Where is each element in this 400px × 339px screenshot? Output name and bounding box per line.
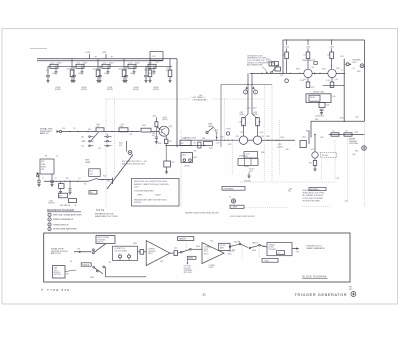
svg-text:LOWER: LOWER [209,265,216,267]
svg-text:C66: C66 [352,154,355,156]
svg-text:2: 2 [245,92,246,94]
source wire down-right [105,267,107,277]
dashed enclosure bottom edge segment 2 [302,205,330,207]
svg-text:4.7k: 4.7k [149,63,152,65]
cap and ground left of Q24 [155,127,157,137]
dashed line mid bottom [240,181,336,183]
pot wiper [89,178,98,181]
svg-text:S10: S10 [88,129,91,131]
svg-text:C30: C30 [220,137,223,139]
svg-text:SEL: SEL [245,156,248,158]
lower link wire [323,85,345,87]
svg-text:R24: R24 [90,171,93,173]
svg-text:C32: C32 [98,70,101,72]
svg-text:C33: C33 [240,132,243,134]
output wire with arrow [292,248,297,250]
svg-text:2.2k: 2.2k [282,54,285,56]
svg-text:TP2: TP2 [296,252,299,254]
svg-text:HORIZONTAL AMPLIFIER: HORIZONTAL AMPLIFIER [53,228,77,231]
comparator triangle [202,243,224,264]
svg-text:10k: 10k [266,61,269,63]
svg-text:LINE: LINE [54,268,57,270]
svg-text:TUNNEL: TUNNEL [269,244,275,246]
wire Q24 emitter to trig level rotary [166,144,206,146]
board contacts B B [119,255,122,258]
svg-text:R5: R5 [84,184,86,186]
transistor Q33 circle [239,136,247,144]
line trig box [53,266,66,278]
ground under source block [248,173,250,176]
svg-text:51: 51 [341,70,343,72]
svg-text:C12: C12 [121,124,124,126]
svg-text:R31: R31 [228,144,231,146]
svg-text:ALL WAFERS SHOWN IN: ALL WAFERS SHOWN IN [303,194,324,197]
trigger out connector [346,63,349,66]
svg-text:C65: C65 [320,137,323,139]
connector arrow into box [37,172,40,174]
svg-text:C1: C1 [56,155,58,157]
svg-text:SEL: SEL [59,195,62,197]
svg-text:R55: R55 [336,68,339,70]
dashed wafer line right of note box [180,130,182,207]
lower wire run [44,180,89,182]
svg-text:R36: R36 [261,152,264,154]
svg-text:C63: C63 [355,117,358,119]
wire schmitt out [170,252,174,254]
feed resistor box 1 [285,52,289,59]
svg-text:SWEEP GENERATOR: SWEEP GENERATOR [306,247,325,250]
resistor boxes left of Q53 [269,62,275,66]
svg-text:.001: .001 [148,73,152,75]
pulse generator enclosure left edge [282,40,284,73]
tall vertical pair to upper section [247,73,249,114]
int trig box [180,140,191,145]
svg-text:3: 3 [255,92,256,94]
svg-text:LEVEL: LEVEL [208,126,214,128]
boxed label TRIGGER right [309,187,326,190]
emitter junction node [165,145,167,147]
svg-text:422 ONLY: 422 ONLY [322,155,329,157]
svg-text:(DCPL): (DCPL) [245,181,251,183]
test point circle below blade [285,79,289,83]
svg-text:TIMING SWITCH: TIMING SWITCH [53,224,69,226]
svg-text:GND: GND [82,141,87,143]
svg-text:BLOCK DIAGRAM: BLOCK DIAGRAM [302,276,326,279]
left small box near Q64 [300,141,306,148]
resistor R342 box [169,66,171,70]
svg-text:(TRIGGER): (TRIGGER) [97,239,106,241]
ext trig level box with pot dots [181,153,193,163]
vertical to trigger out [343,59,345,122]
svg-text:R29: R29 [209,148,212,150]
decoupling stage 4 (R/C filter) [126,65,152,67]
svg-text:+100V: +100V [92,69,98,71]
svg-text:OHMS: OHMS [137,194,143,196]
svg-text:R331: R331 [135,62,140,64]
reference item 2 [48,218,51,221]
capacitor C321 [99,66,101,75]
svg-text:®: ® [41,288,43,292]
decoupling stage 2 (R/C filter) [74,65,100,67]
svg-text:(DCPL): (DCPL) [49,203,55,205]
svg-text:INT: INT [181,143,184,145]
capacitor C341 [145,66,147,75]
svg-text:L34: L34 [156,62,159,64]
svg-text:DELAY LINE: DELAY LINE [313,91,324,94]
svg-text:(DCPL): (DCPL) [278,146,284,148]
svg-text:+175: +175 [336,178,340,180]
svg-text:1M: 1M [152,135,155,137]
pencil smudge top-left [30,48,47,50]
svg-text:PULSE: PULSE [220,245,225,247]
svg-text:N O T E: N O T E [96,210,105,212]
source switch contacts [93,266,95,268]
svg-text:LEVEL: LEVEL [184,166,190,168]
capacitor C331 [125,66,127,75]
collector load resistor above Q24 [155,117,157,122]
transistor Q24 circle [159,126,169,136]
ground network column [165,171,168,173]
svg-text:C2: C2 [55,178,57,180]
resistor R321 box [102,64,110,68]
ground stage 4 right [148,79,151,81]
svg-text:SEE PARTS LIST FOR: SEE PARTS LIST FOR [303,189,322,192]
svg-text:R321: R321 [109,62,114,64]
TD inner box [277,251,285,255]
svg-text:R10: R10 [97,124,100,126]
svg-text:4.7k: 4.7k [51,63,54,65]
resistor 499k box [141,128,151,132]
resistor R331 box [128,64,136,68]
time/div boxed label [178,237,194,241]
reference item 1 [48,213,51,216]
swoopy arrow [262,67,267,73]
resistor R311 box [76,64,84,68]
feed wire stage 5 [169,59,171,67]
overlap box at comparator [219,243,230,250]
svg-text:SCHMITT: SCHMITT [148,248,155,250]
switch contact pair [92,249,94,251]
small cap C342 [153,71,156,73]
svg-text:31: 31 [203,293,207,297]
power bus -12V line [37,60,163,62]
boxed label TRIGGER left [222,186,245,190]
ground stage 5 left [144,79,147,81]
svg-text:R28: R28 [202,138,205,140]
svg-text:4: 4 [49,229,50,231]
resistor 100k box [119,128,128,132]
resistor box 2 [69,199,77,203]
ground stage 4 left [124,79,127,81]
ground under resistor [59,190,62,192]
svg-text:FROM LV: FROM LV [54,272,62,274]
svg-text:SW40: SW40 [244,166,249,168]
svg-text:B1: B1 [109,262,111,264]
svg-text:Q24: Q24 [169,126,173,128]
switch blade 1 [91,132,99,140]
svg-text:2: 2 [49,219,50,221]
svg-text:876: 876 [349,289,352,291]
svg-text:R12: R12 [130,134,133,136]
svg-text:R53: R53 [296,69,299,71]
svg-text:C24: C24 [107,181,110,183]
mode switch contacts [180,251,182,253]
svg-text:R62: R62 [315,119,318,121]
signal input wire [62,131,96,133]
crossing wire y84.5 [221,84,272,86]
svg-text:MULTI: MULTI [148,253,153,255]
circled ref 2 on vertical [244,90,248,94]
svg-text:(DCPL): (DCPL) [162,119,168,121]
svg-text:(422 ONLY): (422 ONLY) [184,272,193,274]
wire after coupling switch [104,131,140,133]
svg-text:R1: R1 [45,155,47,157]
svg-text:C6: C6 [74,205,76,207]
svg-text:(DCPL): (DCPL) [133,89,139,91]
block diagram border box [44,233,350,282]
minus trig boxed label [262,258,278,262]
transistor Q54 circle [328,69,336,77]
input caps and grounds [38,174,40,180]
svg-text:B: B [128,254,129,256]
wire contact box to schmitt [138,251,141,253]
svg-text:.001: .001 [130,73,134,75]
svg-text:TRIGGER: TRIGGER [269,249,277,251]
svg-text:.001: .001 [104,73,108,75]
svg-text:R26: R26 [158,143,161,145]
svg-text:IN FROM: IN FROM [184,268,191,270]
svg-text:RESISTORS ±5% COMPOSITION O: RESISTORS ±5% COMPOSITION OR AS [134,180,168,183]
svg-text:250k: 250k [90,174,94,176]
svg-text:SHOWN: SHOWN [134,202,141,204]
pulse generator enclosure top edge [283,39,365,41]
decoupling stage 1 (R/C filter) [48,65,74,67]
small box under network [319,103,325,108]
svg-text:1.5k: 1.5k [300,80,304,82]
svg-text:V52: V52 [210,241,213,243]
svg-text:499k: 499k [142,125,146,127]
svg-text:TRIGGER: TRIGGER [148,251,156,253]
Q33 emitter drop [243,143,245,145]
slope switch blade upper right [272,65,278,72]
svg-text:LEVEL: LEVEL [85,162,91,164]
svg-text:4.7k: 4.7k [77,63,80,65]
svg-text:R25: R25 [216,130,219,132]
dashed stub below main wire [231,142,233,176]
svg-text:-100V: -100V [118,69,124,71]
svg-text:B: B [119,254,120,256]
svg-text:TP: TP [229,197,231,199]
+12V feed column 1 [286,40,288,45]
transistor Q53 circle [304,69,312,77]
arrow down from norm [187,259,189,263]
vertical feeder wire x=177 [176,59,178,148]
svg-text:C28: C28 [216,143,219,145]
svg-text:AMPL B CH: AMPL B CH [51,252,61,255]
emitter network box under pair [244,152,258,158]
svg-text:SW1: SW1 [133,243,137,245]
jog wires to collector resistors [244,114,249,119]
svg-text:SEL: SEL [194,150,197,152]
svg-text:(R30): (R30) [228,254,232,256]
svg-text:+100V: +100V [144,69,150,71]
feed resistor box 3 [330,52,334,59]
trig level pot box [89,169,101,177]
svg-text:+12V: +12V [284,47,289,49]
notes box with tolerance text [132,178,180,206]
svg-text:C9: C9 [73,128,75,130]
svg-text:NORM: NORM [188,258,193,260]
small cap C312 [81,71,84,73]
source switch block box [238,158,258,165]
second connector circle [360,64,364,68]
+12V feed column 3 [331,40,333,45]
svg-text:100k: 100k [120,126,124,128]
svg-text:FROM FRONT PANEL: FROM FRONT PANEL [303,199,321,202]
svg-text:4.7k: 4.7k [129,63,132,65]
main wire through Q33/Q34 pair [186,139,239,141]
switch blade to horiz display box [94,244,105,253]
ground under ext trig 2 [50,183,53,185]
svg-text:(DCPL): (DCPL) [55,89,61,91]
svg-text:( TROUBLE USE ): ( TROUBLE USE ) [193,100,208,102]
ground stage 1 left [46,79,49,81]
small resistor box on level wire [198,142,201,148]
dashed sel value box [321,152,337,157]
power bus +12V line [37,58,163,60]
svg-text:10k: 10k [216,132,219,134]
svg-text:J10: J10 [62,128,65,130]
svg-text:Q33: Q33 [236,136,239,138]
svg-text:+ GATE: + GATE [231,206,238,209]
svg-text:(DCPL): (DCPL) [153,89,159,91]
emitter resistor below Q24 [165,136,167,139]
svg-text:SEL VALUE: SEL VALUE [60,204,71,207]
schmitt trigger triangle [146,241,170,266]
wire loop rectangle at bus right end [150,52,163,61]
svg-text:.001: .001 [52,73,56,75]
svg-text:SOLID LINES VERT MOUNT: SOLID LINES VERT MOUNT [230,216,255,218]
svg-text:.001: .001 [78,73,82,75]
svg-text:C51: C51 [280,75,283,77]
circled plus title mark [351,292,356,297]
capacitor C301 [47,66,49,75]
resistor R312 box [97,66,99,70]
svg-text:R24: R24 [103,175,106,177]
svg-text:SW3: SW3 [252,250,256,252]
decoupling stage 3 (R/C filter) [100,65,126,67]
svg-text:(DCPL): (DCPL) [166,70,173,72]
+12V feed column 2 [307,40,309,45]
ground stage 5 right [168,79,171,81]
resistor R341 box [148,64,156,68]
wafer dashed line A [263,85,265,181]
reference item 4 [48,227,51,230]
svg-text:R54: R54 [322,69,325,71]
svg-text:C53: C53 [311,67,314,69]
svg-text:C1: C1 [42,178,44,180]
svg-text:51: 51 [353,68,355,70]
svg-text:Q34: Q34 [261,136,264,138]
resistor R332 box [149,66,151,70]
svg-text:Q64: Q64 [302,137,306,139]
junction circle small [226,132,229,135]
dashed enclosure right edge upper [223,99,225,139]
dashed enclosure bottom edge segment 1 [244,206,287,208]
svg-text:-12V: -12V [102,52,107,54]
svg-text:+175: +175 [344,200,348,202]
small cap C302 [55,71,58,73]
dashed enclosure top edge [106,98,189,100]
svg-text:60: 60 [70,261,72,263]
wire into tunnel diode box [241,244,248,247]
svg-text:- SLOPE: - SLOPE [228,251,234,253]
ground stage 1 right [70,79,73,81]
svg-text:3: 3 [49,224,50,226]
svg-text:DIODE: DIODE [269,247,274,249]
lower right horizontal wire [311,120,365,122]
contact on circuit board box [113,246,138,260]
tunnel diode trigger box [267,243,292,256]
svg-text:AMPL V3: AMPL V3 [40,132,49,135]
coupling circled-plus right [362,146,367,151]
wafer dashed line B [271,85,273,181]
vertical into Q64 [314,135,316,153]
dashed enclosure left edge [105,99,107,207]
svg-text:TP1: TP1 [77,249,80,251]
feed wire stage 1 [71,59,73,67]
svg-text:SWITCH: SWITCH [97,242,103,244]
svg-text:(DCPL): (DCPL) [81,89,87,91]
svg-text:TRIGGER GENERATOR: TRIGGER GENERATOR [295,293,348,297]
svg-text:C31: C31 [72,70,75,72]
resistor 1M box [96,128,104,132]
svg-text:R59: R59 [357,71,360,73]
vertical stub x126 [126,141,128,152]
svg-text:SEL: SEL [90,192,93,194]
small cap C322 [107,71,110,73]
svg-text:C45: C45 [174,247,177,249]
norm boxed label [187,256,196,259]
Q34 emitter drop [257,143,259,145]
svg-text:R35: R35 [266,136,269,138]
svg-text:C10: C10 [106,134,109,136]
ground under ext trig 1 [37,183,40,185]
svg-text:C40: C40 [285,149,288,151]
hanging resistor box 1 [60,181,62,183]
svg-text:SEMICONDUCTOR TYPES: SEMICONDUCTOR TYPES [95,216,118,218]
svg-text:COUPLING: COUPLING [349,143,359,145]
svg-text:OUT +: OUT + [352,62,357,64]
svg-text:(DCPL): (DCPL) [107,89,113,91]
svg-text:C11: C11 [98,148,101,150]
svg-text:C30: C30 [46,70,49,72]
svg-text:R52: R52 [232,249,235,251]
svg-text:V45: V45 [160,261,163,263]
svg-text:TIME/DIV: TIME/DIV [179,239,187,241]
svg-text:SOURCE: SOURCE [239,156,245,158]
feed wire stage 3 [123,59,125,67]
svg-text:VOLTAGES MEASURED:: VOLTAGES MEASURED: [134,189,155,192]
svg-text:LEVEL: LEVEL [209,267,214,269]
transistor Q64 circle [312,152,318,158]
capacitor C311 [73,66,75,75]
svg-text:C58: C58 [340,56,343,58]
svg-text:TP30: TP30 [226,129,231,131]
svg-text:R63: R63 [340,118,343,120]
emitter resistor under Q53 [307,78,309,82]
pickoff resistor box 2 [344,133,352,136]
